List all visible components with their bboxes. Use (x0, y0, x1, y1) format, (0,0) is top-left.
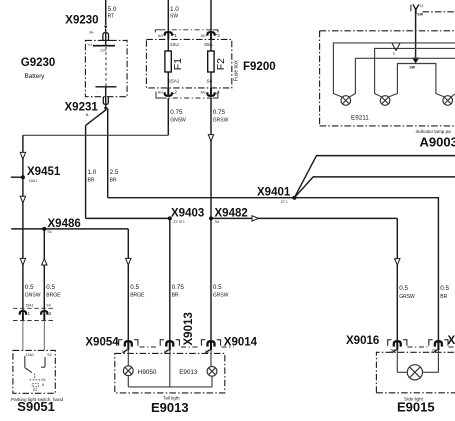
svg-text:1: 1 (174, 33, 177, 38)
svg-text:GNSW: GNSW (170, 118, 186, 124)
svg-text:A9003: A9003 (420, 134, 455, 149)
svg-text:0.75: 0.75 (213, 109, 226, 116)
svg-text:GRSW: GRSW (213, 293, 229, 299)
svg-text:X9230: X9230 (65, 15, 98, 27)
svg-text:X9017: X9017 (448, 335, 455, 347)
svg-text:GRSW: GRSW (213, 118, 229, 124)
svg-text:0.5: 0.5 (213, 284, 222, 291)
svg-text:0.5: 0.5 (25, 284, 34, 291)
svg-text:0.5: 0.5 (440, 285, 449, 292)
svg-text:F9200: F9200 (243, 61, 276, 73)
svg-text:5.0: 5.0 (108, 6, 117, 13)
svg-text:BR: BR (88, 178, 95, 184)
svg-text:4: 4 (217, 90, 220, 95)
svg-text:AG: AG (158, 34, 163, 38)
svg-text:X9013: X9013 (183, 312, 195, 345)
svg-text:X9401: X9401 (257, 186, 291, 198)
svg-text:8: 8 (42, 383, 44, 387)
svg-text:E9013: E9013 (151, 400, 189, 415)
svg-text:Fuse box: Fuse box (234, 60, 240, 81)
svg-text:1.0: 1.0 (88, 169, 97, 176)
svg-text:Battery: Battery (25, 73, 46, 80)
svg-text:2: 2 (49, 311, 52, 316)
svg-text:0.75: 0.75 (172, 284, 185, 291)
svg-text:13: 13 (419, 4, 423, 8)
svg-text:2: 2 (174, 90, 177, 95)
svg-text:X9403: X9403 (171, 207, 204, 219)
svg-text:B+: B+ (90, 31, 95, 35)
svg-text:AG: AG (158, 91, 163, 95)
svg-text:S4: S4 (47, 230, 51, 234)
svg-text:BR: BR (110, 178, 117, 184)
svg-text:S4: S4 (41, 378, 45, 382)
svg-text:S4: S4 (47, 353, 51, 357)
svg-text:G9230: G9230 (21, 57, 56, 69)
svg-text:BR: BR (440, 294, 447, 300)
svg-text:E9211: E9211 (351, 115, 369, 122)
svg-text:0.5: 0.5 (130, 284, 139, 291)
svg-text:GRSW: GRSW (399, 294, 415, 300)
svg-text:S9051: S9051 (17, 399, 55, 414)
svg-text:BRGE: BRGE (130, 293, 145, 299)
svg-text:BRGE: BRGE (46, 293, 61, 299)
svg-text:SW: SW (417, 13, 423, 17)
svg-text:15A1: 15A1 (29, 179, 37, 183)
svg-text:1SU: 1SU (170, 42, 179, 47)
svg-text:GNSW: GNSW (25, 293, 41, 299)
svg-text:AG: AG (201, 34, 206, 38)
svg-text:X9016: X9016 (346, 335, 379, 347)
svg-text:3: 3 (217, 33, 220, 38)
svg-text:3Y 3T1: 3Y 3T1 (173, 220, 185, 224)
svg-text:15A1: 15A1 (26, 353, 34, 357)
svg-text:15A1: 15A1 (25, 303, 33, 307)
svg-text:+/1: +/1 (87, 43, 92, 47)
svg-text:0.5: 0.5 (46, 284, 55, 291)
svg-text:3: 3 (393, 52, 395, 56)
svg-text:SW: SW (170, 14, 178, 20)
svg-text:AG: AG (201, 91, 206, 95)
svg-text:S4: S4 (46, 303, 50, 307)
svg-text:S8A: S8A (204, 42, 214, 47)
svg-text:E9015: E9015 (397, 400, 435, 415)
svg-text:X9054: X9054 (85, 336, 119, 348)
svg-text:0.5: 0.5 (399, 285, 408, 292)
svg-text:X9486: X9486 (48, 218, 81, 230)
svg-text:1.0: 1.0 (170, 6, 179, 13)
svg-text:F1: F1 (172, 58, 184, 70)
svg-text:15A1: 15A1 (169, 79, 180, 84)
svg-text:F2: F2 (215, 58, 227, 70)
svg-text:0.75: 0.75 (170, 109, 183, 116)
svg-text:2T 1: 2T 1 (281, 200, 288, 204)
svg-text:SW: SW (409, 66, 415, 70)
svg-text:X9451: X9451 (27, 166, 61, 178)
svg-text:1: 1 (28, 311, 31, 316)
svg-text:E9013: E9013 (179, 369, 198, 376)
svg-text:E2: E2 (33, 388, 37, 392)
svg-text:X9231: X9231 (65, 102, 99, 114)
svg-text:X9014: X9014 (224, 336, 258, 348)
svg-text:RT: RT (108, 14, 115, 20)
svg-text:S8: S8 (215, 220, 219, 224)
svg-text:H9050: H9050 (138, 369, 157, 376)
svg-text:2.5: 2.5 (110, 169, 119, 176)
svg-text:S8: S8 (207, 79, 213, 84)
svg-text:X9482: X9482 (215, 207, 248, 219)
svg-text:BR: BR (172, 293, 179, 299)
